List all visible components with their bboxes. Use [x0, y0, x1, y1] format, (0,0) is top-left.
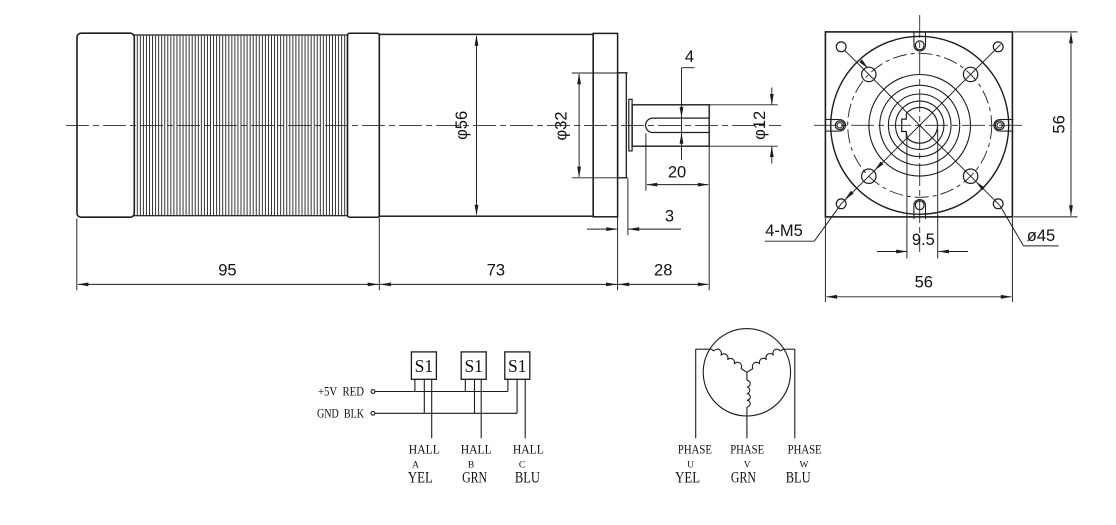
- svg-text:YEL: YEL: [675, 470, 700, 487]
- svg-text:56: 56: [915, 274, 933, 292]
- svg-text:φ32: φ32: [553, 111, 571, 140]
- svg-text:4-M5: 4-M5: [765, 222, 803, 240]
- svg-text:95: 95: [218, 261, 236, 279]
- svg-text:BLU: BLU: [786, 470, 811, 487]
- svg-text:S1: S1: [464, 356, 482, 376]
- svg-text:GRN: GRN: [731, 470, 756, 487]
- svg-text:φ56: φ56: [453, 111, 471, 140]
- svg-text:4: 4: [685, 48, 694, 66]
- svg-text:+5V RED: +5V RED: [318, 384, 364, 399]
- svg-text:YEL: YEL: [408, 470, 433, 487]
- svg-text:9.5: 9.5: [912, 231, 935, 249]
- svg-text:20: 20: [668, 164, 686, 182]
- svg-text:GRN: GRN: [462, 470, 487, 487]
- svg-text:HALL: HALL: [461, 443, 492, 457]
- svg-text:GND BLK: GND BLK: [317, 406, 364, 421]
- svg-text:HALL: HALL: [513, 443, 544, 457]
- svg-text:73: 73: [487, 261, 505, 279]
- svg-text:56: 56: [1051, 115, 1069, 133]
- svg-text:φ12: φ12: [751, 111, 769, 140]
- svg-text:S1: S1: [415, 356, 433, 376]
- svg-text:HALL: HALL: [409, 443, 440, 457]
- svg-text:3: 3: [665, 208, 674, 226]
- svg-text:PHASE: PHASE: [730, 443, 764, 457]
- svg-text:PHASE: PHASE: [788, 443, 822, 457]
- svg-text:BLU: BLU: [515, 470, 540, 487]
- svg-text:28: 28: [654, 261, 672, 279]
- svg-text:ø45: ø45: [1027, 227, 1055, 245]
- svg-text:PHASE: PHASE: [678, 443, 712, 457]
- svg-text:S1: S1: [508, 356, 526, 376]
